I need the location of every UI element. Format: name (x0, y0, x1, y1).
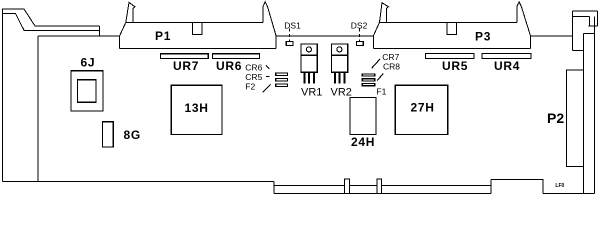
svg-text:CR6: CR6 (245, 63, 262, 73)
svg-text:13H: 13H (185, 101, 209, 115)
svg-text:8G: 8G (124, 128, 141, 142)
svg-text:CR8: CR8 (383, 62, 400, 72)
svg-text:UR4: UR4 (494, 59, 520, 73)
svg-text:VR2: VR2 (331, 87, 352, 99)
svg-text:CR5: CR5 (245, 72, 262, 82)
svg-text:UR6: UR6 (216, 59, 242, 73)
svg-text:P3: P3 (475, 30, 491, 44)
svg-text:6J: 6J (81, 56, 96, 70)
svg-text:27H: 27H (411, 101, 435, 115)
svg-text:P1: P1 (155, 29, 171, 43)
svg-text:UR7: UR7 (173, 59, 199, 73)
svg-text:DS1: DS1 (284, 21, 301, 31)
svg-text:LF0: LF0 (555, 183, 564, 189)
svg-text:CR7: CR7 (382, 52, 399, 62)
svg-text:24H: 24H (351, 135, 375, 149)
svg-text:F2: F2 (245, 82, 255, 92)
svg-text:VR1: VR1 (301, 87, 322, 99)
svg-text:F1: F1 (376, 87, 386, 97)
svg-text:DS2: DS2 (351, 21, 368, 31)
svg-text:P2: P2 (547, 110, 564, 126)
svg-text:UR5: UR5 (442, 59, 468, 73)
